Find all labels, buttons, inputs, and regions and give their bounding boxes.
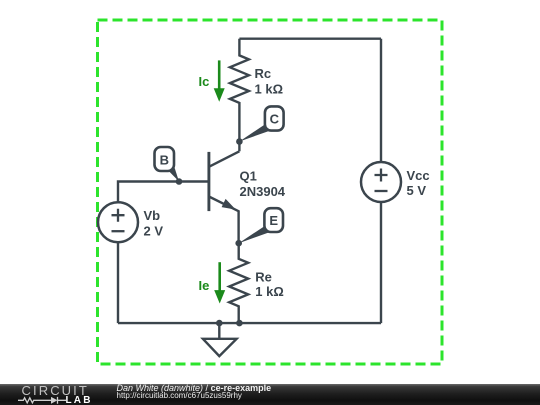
resistor Re — [229, 243, 248, 323]
svg-text:C: C — [270, 111, 280, 126]
ground — [203, 323, 237, 356]
voltage source Vb — [98, 202, 138, 242]
node flag E — [239, 208, 283, 243]
svg-text:Re: Re — [255, 269, 272, 284]
svg-text:Vb: Vb — [144, 208, 161, 223]
resistor Rc — [230, 39, 249, 152]
svg-text:B: B — [160, 152, 169, 167]
current arrow Ie (green) — [214, 262, 225, 303]
selection border (dashed green) — [98, 20, 443, 364]
junction dot Re bottom — [236, 320, 243, 327]
node flag B — [155, 147, 180, 182]
transistor Q1 (2N3904 NPN) — [209, 151, 240, 243]
logo LAB text — [66, 395, 93, 405]
svg-text:1 kΩ: 1 kΩ — [255, 82, 284, 97]
CircuitLab logo symbol (resistor + diode) — [0, 384, 110, 405]
emitter lead — [209, 197, 239, 244]
svg-text:2 V: 2 V — [144, 224, 164, 239]
footer line 1 — [117, 383, 272, 393]
svg-text:Vcc: Vcc — [407, 168, 430, 183]
CircuitLab logo text — [22, 383, 89, 398]
junction dot ground — [216, 320, 223, 327]
svg-text:Q1: Q1 — [240, 168, 257, 183]
emitter arrow — [222, 199, 236, 210]
wire: top rail from Rc top to Vcc top — [239, 38, 381, 40]
junction dot at emitter node — [235, 240, 242, 247]
footer watermark bar — [0, 384, 540, 405]
wire: left branch Vb bottom to bottom rail — [117, 242, 119, 323]
svg-text:E: E — [269, 213, 278, 228]
voltage source Vcc — [361, 162, 401, 202]
wire: left branch Vb top to base — [118, 182, 209, 203]
base bar — [207, 152, 210, 211]
svg-text:1 kΩ: 1 kΩ — [255, 284, 283, 299]
junction dot at base node — [176, 178, 183, 185]
svg-text:Rc: Rc — [255, 66, 272, 81]
node flag C — [239, 106, 283, 141]
wire: bottom rail — [118, 322, 381, 324]
svg-text:5 V: 5 V — [407, 183, 427, 198]
junction dot at collector node — [236, 138, 243, 145]
svg-text:2N3904: 2N3904 — [240, 184, 286, 199]
footer line 2 — [117, 391, 242, 400]
svg-text:Ie: Ie — [199, 278, 210, 293]
current arrow Ic (green) — [214, 60, 225, 101]
collector lead — [209, 151, 240, 167]
svg-text:Ic: Ic — [199, 74, 210, 89]
wire: right rail lower (Vcc to bottom rail) — [380, 202, 382, 323]
wire: right rail upper (top rail to Vcc) — [380, 39, 382, 162]
